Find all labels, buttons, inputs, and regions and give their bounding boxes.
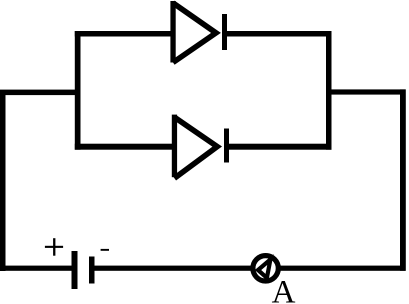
wire: left connector horizontal [0,90,81,96]
diode D1 cathode bar [222,14,227,50]
label: battery - sign [101,249,109,251]
ammeter M1 needle [258,260,270,278]
wire: parallel-branch right vertical [326,31,332,150]
diode D2 anode bar (triangle left side) [172,115,177,178]
svg-text:A: A [272,275,296,304]
wire: middle branch right segment [227,144,332,150]
diode D1 triangle diagonals [173,3,216,63]
diode D2 cathode bar [224,129,229,163]
wire: top branch left segment [75,31,174,37]
wire: parallel-branch left vertical [75,31,81,150]
wire: outer right vertical [400,89,406,270]
wire: bottom left segment (to battery positive plate) [0,266,75,271]
diode D1 anode bar (triangle left side) [170,1,175,63]
battery positive plate (long) [72,251,78,289]
diode D2 triangle diagonals [174,117,217,178]
battery negative plate (short) [89,257,95,284]
label: battery + sign [45,238,63,256]
ammeter M1 circle body [253,256,278,281]
wire: bottom middle segment (battery to ammeter) [92,266,406,271]
wire: top branch right segment [225,31,332,37]
wire: outer left vertical [0,90,6,271]
wire: middle branch left segment [75,144,175,150]
wire: right connector horizontal [326,89,406,94]
